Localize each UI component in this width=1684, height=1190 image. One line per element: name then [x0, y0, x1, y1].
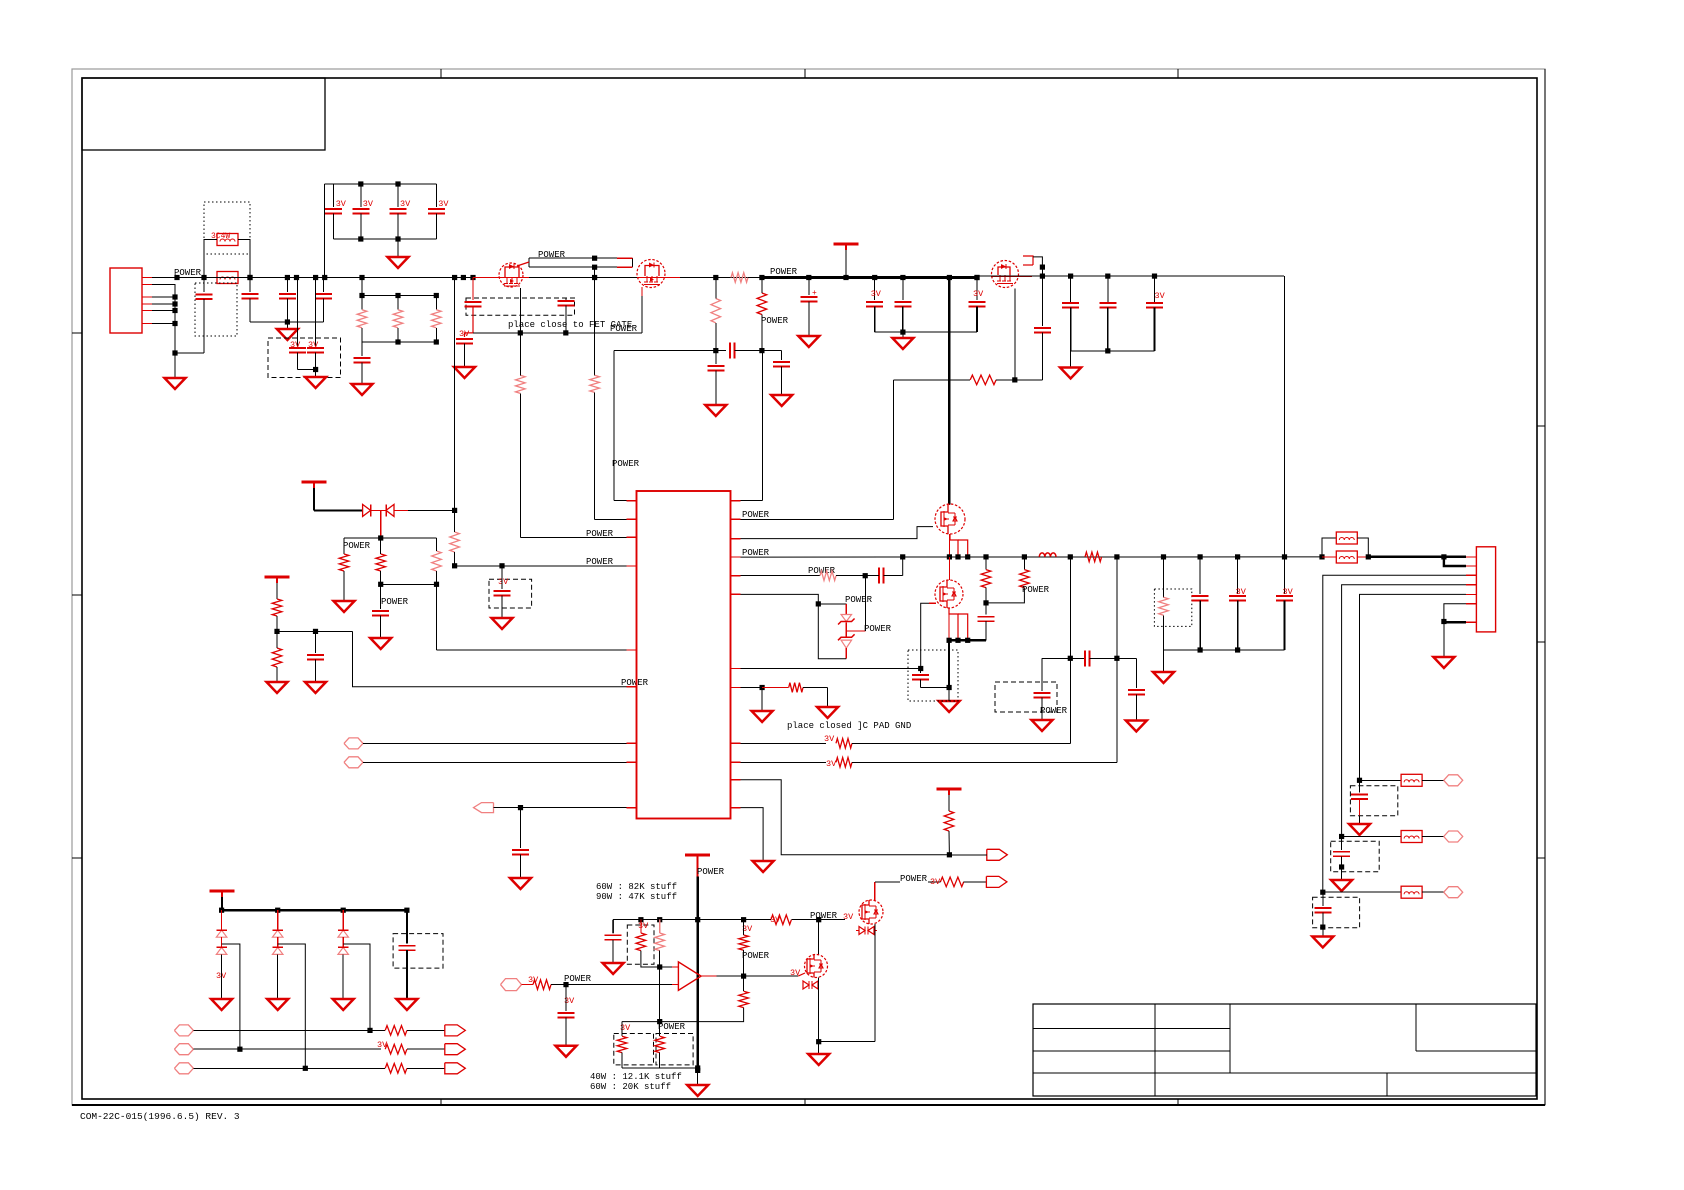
- wire down to IC pin1 left: [613, 351, 615, 501]
- Q7 source down: [818, 978, 820, 1042]
- svg-text:60W : 82K stuff: 60W : 82K stuff: [596, 882, 677, 892]
- feedback net to inverting node: [659, 967, 661, 1022]
- svg-text:+: +: [812, 289, 817, 298]
- bottoms to gnd rail: [622, 1067, 698, 1069]
- svg-text:POWER: POWER: [658, 1022, 686, 1032]
- gate rail wires: [529, 257, 632, 259]
- capacitor at arrow: [520, 808, 522, 848]
- border zone tick marks: [440, 69, 442, 78]
- page border outer: [72, 69, 1545, 1105]
- wire pin6: [1444, 604, 1466, 622]
- svg-text:POWER: POWER: [697, 867, 725, 877]
- svg-text:3V: 3V: [790, 968, 801, 978]
- resistor: [272, 599, 282, 616]
- resistor to arrow: [940, 877, 963, 887]
- feedback resistor 3V b: [741, 761, 827, 763]
- wire to diodes: [314, 509, 363, 511]
- Q6 zener pair: [859, 927, 865, 935]
- capacitor gate a: [472, 278, 474, 301]
- output caps: [1198, 554, 1203, 559]
- diode branch 3: [342, 910, 344, 930]
- resistor on bus: [1085, 552, 1102, 562]
- input connector hex 1: [344, 738, 363, 749]
- transistor Q1 PMOS: [499, 263, 523, 287]
- wire bus to FET Q1: [452, 275, 457, 280]
- svg-text:POWER: POWER: [1040, 706, 1068, 716]
- svg-text:3V: 3V: [363, 199, 374, 209]
- Q6 source down: [874, 924, 876, 1041]
- thick rail vertical: [696, 876, 699, 1070]
- svg-text:POWER: POWER: [845, 595, 873, 605]
- svg-text:POWER: POWER: [742, 510, 770, 520]
- wire pin7 gnd: [1444, 621, 1466, 623]
- svg-text:40W : 12.1K stuff: 40W : 12.1K stuff: [590, 1072, 682, 1082]
- svg-text:POWER: POWER: [742, 951, 770, 961]
- svg-text:POWER: POWER: [1022, 585, 1050, 595]
- wire pin4: [1342, 585, 1466, 837]
- dashed box place close to FET GATE: [466, 298, 575, 315]
- dotted option box ferrite upper: [204, 202, 250, 254]
- wire pin5: [1360, 594, 1467, 780]
- polarized capacitor: [806, 275, 811, 280]
- wire right pin1 up: [741, 500, 763, 502]
- inductor L3: [1068, 554, 1073, 559]
- power T symbol: [685, 854, 710, 857]
- capacitor Q3 gate: [1034, 327, 1051, 329]
- capacitor to gnd: [315, 631, 317, 653]
- capacitor 3V a: [297, 278, 299, 347]
- resistor mid: [376, 554, 386, 571]
- output filter row1: [1357, 778, 1362, 783]
- horizontal rc rail: [614, 350, 726, 352]
- vertical from bus to cap row: [1069, 557, 1071, 743]
- svg-text:3V: 3V: [871, 289, 882, 299]
- svg-text:COM-22C-015(1996.6.5) REV. 3: COM-22C-015(1996.6.5) REV. 3: [80, 1111, 240, 1122]
- power T symbol 2: [265, 576, 290, 579]
- ground of cap bank: [397, 239, 399, 256]
- capacitor at 716 to gnd: [715, 351, 717, 364]
- Q5 drain stubs: [949, 608, 958, 640]
- resistor divider group: [361, 278, 363, 296]
- ground: [352, 384, 373, 395]
- wire diode mid down: [380, 510, 382, 538]
- stuff resistor left: [621, 1022, 623, 1037]
- wire J1 pins to gnd trunk: [152, 285, 175, 354]
- resistor A: [640, 920, 642, 933]
- capacitor below divider: [361, 342, 363, 356]
- decoupling caps below bus: [249, 278, 251, 293]
- diode branch 2: [277, 910, 279, 930]
- wire trunk to cap: [175, 352, 204, 354]
- dashed stuff resistor boxes: [614, 1034, 654, 1065]
- transistor Q5 NMOS: [948, 557, 950, 580]
- wire cap bank to bus: [324, 184, 326, 278]
- series capacitor row: [1042, 657, 1085, 659]
- ground: [174, 353, 176, 377]
- capacitor gate b: [565, 298, 567, 300]
- svg-text:POWER: POWER: [586, 557, 614, 567]
- resistor Q3 gate h: [893, 379, 970, 381]
- resistor snubber: [983, 554, 988, 559]
- power T symbol: [210, 890, 235, 893]
- svg-text:3V: 3V: [824, 734, 835, 744]
- io row 1: [174, 1025, 193, 1036]
- wire bottom of gate network: [473, 332, 642, 334]
- capacitor at 782 to gnd: [781, 351, 783, 360]
- wire pin2 tie: [1444, 557, 1466, 566]
- output filter row2: [1339, 834, 1344, 839]
- arrow out sense: [987, 849, 1008, 860]
- branch3 tap: [343, 944, 370, 1030]
- capacitor bank 3V x4 top: [325, 183, 437, 185]
- bead on bus: [1322, 556, 1336, 558]
- opamp output: [701, 975, 716, 977]
- wire Q1 gate stub: [517, 262, 529, 266]
- dotted box cap: [908, 650, 958, 701]
- bead bypass at output: [1319, 554, 1324, 559]
- diode D2: [386, 504, 394, 516]
- caps right of Q3: [1068, 274, 1073, 279]
- resistor under bus-divider: [450, 532, 460, 552]
- transistor Q2 PMOS: [637, 260, 665, 288]
- wire Q3 gate to RC: [1033, 257, 1042, 267]
- Q7 zener pair: [803, 981, 809, 989]
- svg-text:POWER: POWER: [864, 624, 892, 634]
- svg-text:3V: 3V: [843, 912, 854, 922]
- main POWER bus top: [204, 277, 490, 279]
- resistor Q1 leg: [516, 375, 526, 393]
- wire right pin3 to Q4 gate: [741, 527, 934, 539]
- transistor Q7: [805, 955, 828, 978]
- capacitor 3V b: [315, 278, 317, 347]
- IC left pins: [627, 500, 637, 502]
- output filter row3: [1320, 890, 1325, 895]
- wire SD pin: [455, 565, 627, 567]
- svg-text:3V: 3V: [930, 877, 941, 887]
- svg-text:3V: 3V: [336, 199, 347, 209]
- title reference box top-left: [82, 78, 325, 150]
- capacitor in dotted box: [920, 669, 922, 674]
- branch1 tap: [222, 944, 240, 1049]
- wire left pin3: [520, 536, 626, 538]
- op-amp U2: [678, 962, 701, 990]
- svg-text:3V: 3V: [826, 759, 837, 769]
- svg-text:3V: 3V: [1155, 291, 1166, 301]
- capacitor 3V at 1154: [1152, 274, 1157, 279]
- wire after Q2 junction: [713, 275, 718, 280]
- wire left pin2: [595, 518, 627, 520]
- wire Q1 drain down: [519, 288, 521, 333]
- transistor Q6: [859, 900, 883, 924]
- wire right pin 807 gnd: [741, 808, 764, 860]
- wire to IC: [353, 631, 627, 686]
- wire gate pulldown vertical: [594, 267, 596, 375]
- rail: [277, 630, 353, 632]
- thick wire to connector: [1368, 556, 1466, 558]
- svg-text:POWER: POWER: [381, 597, 409, 607]
- wire right pin2: [741, 518, 894, 520]
- power T + resistor: [937, 788, 962, 791]
- svg-text:3V: 3V: [638, 921, 649, 931]
- resistor gate R: [590, 375, 600, 392]
- svg-text:3V: 3V: [459, 329, 470, 339]
- svg-text:POWER: POWER: [564, 974, 592, 984]
- connector J1 input: [110, 268, 142, 333]
- series capacitor: [729, 343, 731, 359]
- Q5 gate wire: [921, 603, 929, 668]
- wire bead L2 loop: [204, 240, 217, 278]
- svg-text:POWER: POWER: [770, 267, 798, 277]
- svg-text:POWER: POWER: [343, 541, 371, 551]
- input arrow left: [474, 803, 494, 813]
- diode branch 1: [221, 910, 223, 930]
- svg-text:3V: 3V: [438, 199, 449, 209]
- svg-text:60W : 20K stuff: 60W : 20K stuff: [590, 1082, 671, 1092]
- output cap bank rail: [1164, 649, 1285, 651]
- resistor vert at 716: [711, 299, 721, 323]
- wire right pin6 zener clamp: [741, 594, 819, 604]
- wire down to IC pin1 right: [762, 351, 764, 501]
- long vertical right: [1284, 276, 1286, 557]
- ground: [454, 367, 475, 378]
- wire junctions: [1114, 554, 1119, 559]
- resistor parallel: [1022, 554, 1027, 559]
- power T symbol: [834, 243, 859, 246]
- svg-text:POWER: POWER: [761, 316, 789, 326]
- resistor B pale: [659, 920, 661, 933]
- resistor pad gnd: [789, 683, 803, 693]
- feedback resistor 3V a: [741, 742, 827, 744]
- ground: [315, 370, 317, 377]
- wire right pin 687 gnd net: [741, 687, 763, 689]
- svg-text:POWER: POWER: [742, 548, 770, 558]
- capacitor mid: [380, 584, 382, 609]
- title block: [1033, 1004, 1536, 1096]
- io row 2: [174, 1044, 193, 1055]
- resistor series bus: [731, 273, 748, 283]
- stuff resistor right: [659, 1022, 661, 1037]
- diode rail thick: [222, 909, 407, 911]
- svg-text:3V: 3V: [973, 289, 984, 299]
- wire left pin1: [614, 500, 627, 502]
- dashed box 3V cap: [489, 579, 532, 608]
- svg-text:3V: 3V: [498, 577, 509, 587]
- dotted option box lower: [195, 283, 237, 336]
- opamp plus input: [660, 966, 672, 968]
- svg-text:90W : 47K stuff: 90W : 47K stuff: [596, 892, 677, 902]
- wire pin3 long: [1323, 575, 1466, 892]
- capacitor snubber: [985, 603, 987, 615]
- IC right pins: [731, 500, 741, 502]
- svg-text:POWER: POWER: [174, 268, 202, 278]
- dashed box caps 3V: [268, 338, 341, 378]
- bus to top right corner: [977, 275, 1284, 277]
- wire right pin 668 to cap: [741, 668, 921, 670]
- ground: [286, 322, 288, 328]
- cap left of rail: [612, 920, 614, 934]
- zener mid tap: [846, 630, 865, 632]
- resistor to gnd: [272, 648, 282, 667]
- resistor vert at 762: [757, 293, 767, 315]
- svg-text:POWER: POWER: [612, 459, 640, 469]
- thick vertical to Q4: [948, 278, 951, 505]
- transistor Q4 NMOS: [935, 504, 965, 534]
- thick POWER bus: [762, 276, 977, 279]
- switch node rail: [949, 639, 986, 641]
- capacitor 3V bank mid: [872, 275, 877, 280]
- input connector hex 2: [344, 757, 363, 768]
- wire gate net down to IC: [892, 380, 894, 520]
- Q6 drain wire up: [874, 882, 876, 900]
- Q3 gate bracket: [1023, 256, 1033, 265]
- dashed box cap branch4: [393, 934, 443, 969]
- ferrite bead L2: [217, 234, 238, 246]
- long vertical bus branch: [454, 278, 456, 511]
- svg-text:POWER: POWER: [900, 874, 928, 884]
- capacitor C1: [203, 278, 205, 293]
- diode D1: [363, 504, 371, 516]
- wire J1 pin1 to POWER bus: [152, 277, 204, 279]
- svg-text:3V: 3V: [400, 199, 411, 209]
- divider resistor bottom: [739, 991, 749, 1007]
- thick gnd drop: [948, 640, 950, 687]
- io row 3: [174, 1063, 193, 1074]
- power T symbol left: [302, 481, 327, 484]
- dashed box cap power: [995, 682, 1057, 712]
- mid power bus from pin4: [741, 556, 1323, 558]
- svg-text:place closed ]C PAD GND: place closed ]C PAD GND: [787, 721, 911, 731]
- divider rail: [344, 537, 437, 539]
- dotted box resistor: [1154, 589, 1191, 626]
- capacitor to gnd right: [1135, 658, 1137, 688]
- comparator rail: [613, 919, 744, 921]
- wire Q7 chain: [818, 920, 820, 955]
- svg-text:POWER: POWER: [610, 324, 638, 334]
- branch2 tap: [278, 944, 306, 1068]
- svg-text:POWER: POWER: [586, 529, 614, 539]
- Q4 source stubs: [950, 534, 958, 557]
- zener pair: [845, 604, 847, 615]
- wire right pin5 rc: [741, 575, 821, 577]
- wire Q3 source down: [1014, 289, 1016, 380]
- ferrite bead L1 on bus: [204, 277, 217, 279]
- IC U1 main controller: [637, 491, 731, 819]
- page border inner: [82, 78, 1537, 1099]
- connector J2 output: [1476, 547, 1495, 632]
- dashed box gain resistors: [627, 925, 654, 964]
- wire right pin 780 to sense: [741, 780, 950, 855]
- resistor right pale: [432, 551, 442, 571]
- wire Q2 gate down: [641, 296, 643, 333]
- opamp minus input wire from hex: [501, 979, 522, 991]
- resistor left: [343, 538, 345, 554]
- transistor Q3 PMOS: [977, 275, 991, 277]
- wire to IC pin: [436, 584, 438, 650]
